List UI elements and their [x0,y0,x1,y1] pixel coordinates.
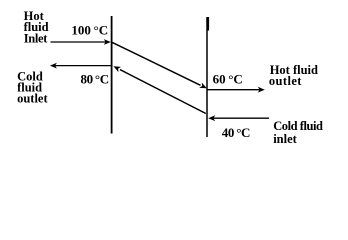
svg-text:Inlet: Inlet [24,32,48,46]
svg-text:outlet: outlet [17,91,48,105]
right vertical line (cold end boundary) [206,17,208,137]
label Hot fluid outlet (right) [269,63,318,88]
hot fluid temperature line (diagonal 100→60) [112,42,208,91]
svg-text:40 °C: 40 °C [222,125,250,140]
cold fluid temperature line (diagonal 80←40) [112,64,206,114]
left vertical line (hot end boundary) [111,16,113,134]
svg-text:inlet: inlet [273,132,297,146]
label Hot fluid inlet (top left) [24,9,49,46]
svg-text:outlet: outlet [269,74,302,88]
svg-text:100 °C: 100 °C [71,22,108,37]
hot fluid inlet arrow (100 °C) [51,39,111,45]
cold fluid outlet arrow (80 °C) [50,63,113,69]
label Cold fluid inlet (bottom right) [273,119,323,146]
cold fluid inlet arrow (40 °C) [208,115,269,121]
svg-text:60 °C: 60 °C [213,71,243,86]
label Cold fluid outlet (mid left) [17,69,48,105]
right vertical line thick top cap [207,17,209,31]
svg-text:80 °C: 80 °C [81,72,109,87]
hot fluid outlet arrow (60 °C) [207,87,265,93]
